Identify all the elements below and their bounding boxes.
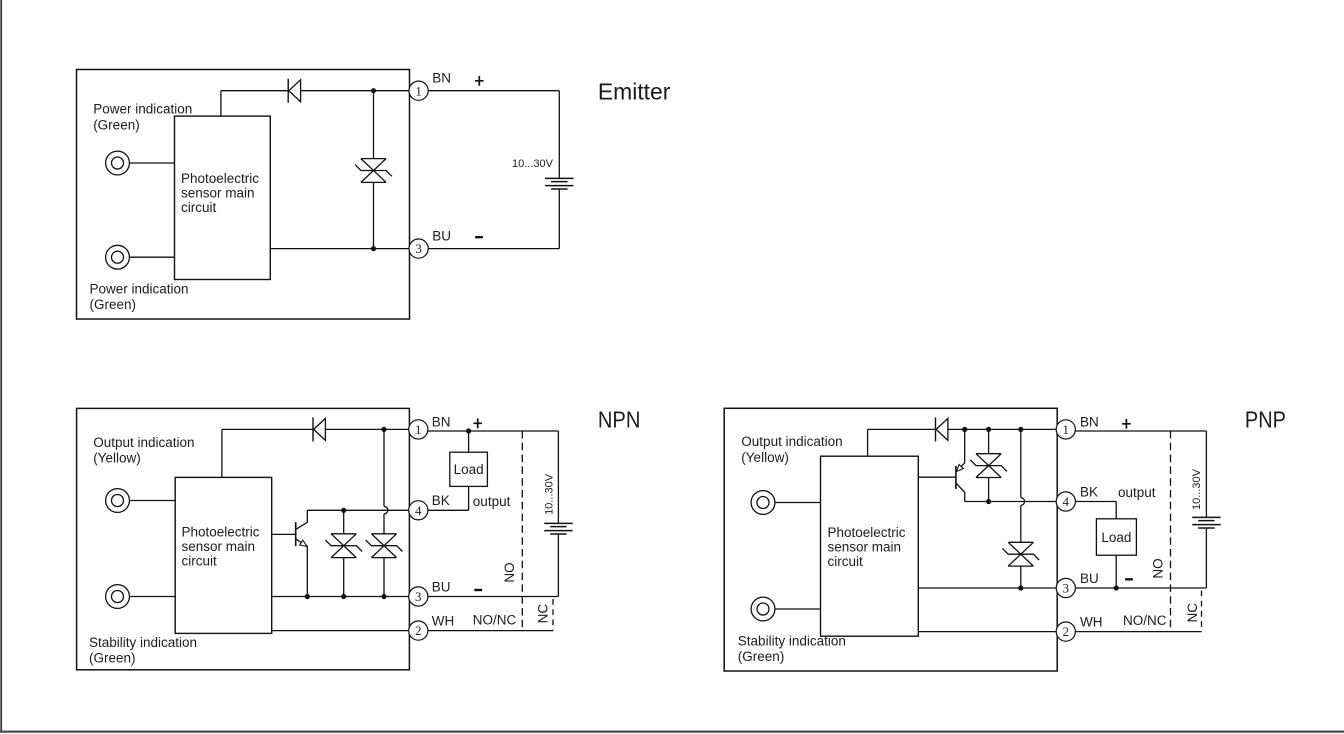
wire WH external from terminal 2 (1075, 631, 1201, 633)
wire BN rail right segment (301, 90, 410, 92)
svg-text:Photoelectric: Photoelectric (182, 525, 260, 540)
TVS surge suppressor Z2 supply clamp (1002, 542, 1039, 566)
node junction BU-TVS1 (341, 594, 346, 599)
TVS surge suppressor Z1 (355, 159, 392, 183)
wire sensor circuit top to BN rail (867, 429, 869, 456)
svg-text:NO/NC: NO/NC (1123, 613, 1167, 628)
battery 10...30V supply (544, 522, 572, 524)
transistor Q1 base wire (272, 533, 296, 535)
wire BN rail left segment (222, 428, 313, 430)
svg-text:BN: BN (1080, 414, 1099, 429)
wire BK external from terminal 4 to load (428, 509, 469, 511)
svg-text:circuit: circuit (181, 200, 217, 215)
svg-text:sensor main: sensor main (828, 540, 902, 555)
terminal 3 BU (1056, 578, 1075, 597)
node junction BK-TVS1 (986, 499, 991, 504)
svg-text:1: 1 (415, 83, 422, 98)
svg-text:10...30V: 10...30V (1191, 468, 1203, 510)
wire LED stability to sensor circuit (775, 608, 821, 610)
photoelectric sensor main circuit block (821, 456, 919, 636)
wire BK corner down to load (1115, 502, 1117, 519)
dashed NC select line (552, 599, 554, 631)
svg-text:10...30V: 10...30V (512, 158, 554, 170)
node junction BN-emitter (962, 427, 967, 432)
wire crossover hop over BK wire (1021, 498, 1025, 506)
svg-text:sensor main: sensor main (182, 539, 256, 554)
wire TVS1 down to BK rail (988, 478, 990, 502)
LED indicator stability (green) (106, 585, 130, 609)
svg-text:circuit: circuit (828, 554, 864, 569)
node junction BN-load (466, 428, 471, 433)
node junction BU-TVS2 (1018, 585, 1023, 590)
svg-text:sensor main: sensor main (181, 186, 255, 201)
svg-text:10...30V: 10...30V (544, 473, 556, 515)
svg-text:(Green): (Green) (738, 649, 785, 664)
svg-text:output: output (1118, 485, 1156, 500)
wire load down to BU rail (1115, 555, 1117, 588)
wire BU rail from sensor circuit to terminal 3 (272, 596, 409, 598)
svg-text:NC: NC (536, 604, 551, 624)
LED indicator top (power) (106, 151, 130, 175)
svg-text:WH: WH (1080, 614, 1103, 629)
svg-text:Load: Load (454, 462, 484, 477)
transistor Q1 emitter (296, 539, 307, 596)
svg-text:(Green): (Green) (89, 651, 136, 666)
wire supply right down to battery (557, 431, 559, 524)
terminal 1 BN (409, 420, 428, 439)
wire crossover down to TVS2 (1020, 505, 1022, 542)
wire BN rail right segment (948, 428, 1057, 430)
wire TVS1 down to BU rail (343, 558, 345, 597)
wire crossover hop over BK wire (384, 506, 388, 514)
transistor Q1 emitter (956, 429, 965, 472)
svg-text:Photoelectric: Photoelectric (828, 525, 906, 540)
dashed NO select line (521, 431, 523, 631)
node junction BK-TVS1 (341, 508, 346, 513)
svg-text:NC: NC (1185, 603, 1200, 623)
svg-text:Photoelectric: Photoelectric (181, 171, 259, 186)
node junction BU-TVS (371, 246, 376, 251)
svg-text:NO: NO (1150, 558, 1165, 578)
wire battery down to BU return (1205, 528, 1207, 588)
svg-text:(Green): (Green) (93, 118, 140, 133)
terminal 2 WH (1056, 622, 1075, 641)
NPN outer enclosure box (77, 408, 410, 669)
wire LED top to sensor circuit (129, 162, 174, 164)
svg-text:2: 2 (1063, 624, 1070, 639)
wire BN rail left segment (868, 428, 936, 430)
wire battery down to BU return (557, 534, 559, 597)
wire BN external to supply (1075, 430, 1206, 432)
svg-text:BK: BK (1080, 484, 1098, 499)
wire BN junction down to crossover (383, 429, 385, 506)
terminal 4 BK (1056, 492, 1075, 511)
page bottom border line (0, 730, 1344, 732)
node junction BN-TVS2 (381, 427, 386, 432)
wire TVS2 down to BU rail (1020, 566, 1022, 588)
svg-text:BU: BU (432, 579, 451, 594)
node junction BN-TVS (371, 88, 376, 93)
svg-text:PNP: PNP (1245, 407, 1286, 433)
node junction BN-TVS1 (986, 427, 991, 432)
svg-text:BK: BK (432, 493, 450, 508)
svg-text:3: 3 (1063, 581, 1070, 596)
transistor Q1 emitter arrow (300, 540, 308, 546)
svg-text:BN: BN (432, 70, 451, 85)
wire LED stability to sensor circuit (129, 596, 175, 598)
battery 10...30V supply (545, 177, 573, 179)
wire BU return to terminal 3 (428, 596, 559, 598)
emitter outer enclosure box (77, 70, 410, 320)
svg-text:4: 4 (415, 503, 422, 518)
wire load down to BK output (468, 486, 470, 510)
svg-text:3: 3 (415, 589, 422, 604)
transistor Q1 NPN base bar (295, 522, 297, 546)
wire BU return to terminal 3 (1075, 587, 1206, 589)
svg-text:circuit: circuit (182, 554, 218, 569)
svg-text:4: 4 (1063, 494, 1070, 509)
LED indicator stability (green) (751, 597, 775, 621)
wire LED output to sensor circuit (775, 502, 821, 504)
node junction BU-TVS2 (381, 594, 386, 599)
load box (450, 452, 488, 486)
svg-text:(Yellow): (Yellow) (741, 450, 789, 465)
photoelectric sensor main circuit block (175, 116, 271, 279)
wire WH rail from sensor circuit to terminal 2 (272, 630, 409, 632)
node junction BU-load (1114, 585, 1119, 590)
node junction BN-TVS2 (1018, 427, 1023, 432)
wire BU rail from sensor circuit to terminal 3 (270, 248, 409, 250)
wire supply right down to battery (1205, 431, 1207, 518)
svg-text:2: 2 (415, 623, 422, 638)
wire BK rail from collector to terminal 4 (965, 501, 1057, 503)
transistor Q1 base wire (918, 476, 956, 478)
minus sign supply (474, 589, 482, 591)
plus sign supply (1122, 419, 1131, 429)
terminal 2 WH (409, 621, 428, 640)
wire LED bottom to sensor circuit (129, 256, 174, 258)
TVS surge suppressor Z2 supply clamp (366, 534, 403, 558)
terminal 3 BU (409, 587, 428, 606)
wire crossover down to TVS2 (383, 514, 385, 534)
transistor Q1 collector (296, 510, 307, 529)
wire BN external to supply (428, 430, 559, 432)
wire BN junction down to TVS1 (988, 429, 990, 453)
wire junction down to TVS (373, 91, 375, 159)
wire BK external from terminal 4 to load (1075, 501, 1116, 503)
wire BN junction down to crossover (1020, 429, 1022, 497)
wire WH rail from sensor circuit to terminal 2 (918, 631, 1056, 633)
svg-text:Stability indication: Stability indication (89, 635, 197, 650)
transistor Q1 collector (956, 483, 965, 501)
wire WH external from terminal 2 (428, 630, 553, 632)
terminal 4 BK (409, 501, 428, 520)
load box (1096, 519, 1136, 555)
wire supply right down to battery (558, 91, 560, 179)
svg-text:NO/NC: NO/NC (473, 613, 517, 628)
svg-text:(Yellow): (Yellow) (93, 451, 141, 466)
svg-text:1: 1 (1063, 422, 1070, 437)
wire BU rail from sensor circuit to terminal 3 (918, 587, 1056, 589)
wire TVS down to BU rail (373, 182, 375, 248)
TVS surge suppressor Z1 output clamp (970, 454, 1007, 478)
plus sign supply (473, 418, 482, 428)
svg-text:output: output (473, 494, 511, 509)
svg-text:(Green): (Green) (90, 297, 137, 312)
transistor Q1 PNP base bar (955, 466, 957, 489)
minus sign supply (1125, 578, 1133, 580)
wire BK rail from collector to terminal 4 (307, 509, 409, 511)
wire battery down to BU return (558, 189, 560, 249)
transistor Q1 emitter arrow (956, 465, 963, 472)
svg-text:NPN: NPN (598, 407, 641, 433)
dashed NO select line (1170, 431, 1172, 632)
wire junction down to load (468, 431, 470, 452)
svg-text:3: 3 (415, 241, 422, 256)
wire BU return to terminal 3 (428, 248, 559, 250)
TVS surge suppressor Z1 output clamp (325, 534, 362, 558)
wire sensor circuit top to BN rail (221, 429, 223, 477)
wire TVS2 down to BU rail (383, 558, 385, 597)
terminal 1 BN (1056, 420, 1075, 439)
battery 10...30V supply (1192, 516, 1220, 518)
svg-text:1: 1 (415, 422, 422, 437)
svg-text:WH: WH (432, 613, 455, 628)
svg-text:Power indication: Power indication (90, 281, 189, 296)
diode D1 reverse polarity protection (287, 79, 289, 103)
svg-text:BU: BU (432, 229, 451, 244)
wire BK junction down to TVS1 (343, 510, 345, 534)
minus sign supply (475, 236, 483, 238)
svg-text:Output indication: Output indication (93, 435, 194, 450)
svg-text:Power indication: Power indication (93, 102, 192, 117)
diode D1 reverse polarity protection (935, 417, 937, 441)
dashed NC select line (1201, 591, 1203, 632)
LED indicator output (yellow) (751, 491, 775, 515)
wire sensor circuit top to BN rail (220, 91, 222, 116)
wire BN rail right segment (325, 428, 409, 430)
PNP outer enclosure box (724, 408, 1057, 671)
svg-text:BU: BU (1080, 571, 1099, 586)
svg-text:BN: BN (432, 414, 451, 429)
wire BN rail left segment (221, 90, 288, 92)
LED indicator output (yellow) (106, 489, 130, 513)
wire terminal 1 to supply top (428, 90, 559, 92)
svg-text:Emitter: Emitter (598, 79, 671, 105)
page left border line (0, 0, 2, 732)
terminal 3 BU (409, 239, 428, 258)
wire LED output to sensor circuit (129, 500, 175, 502)
terminal 1 BN (409, 81, 428, 100)
node junction BU-emitter (305, 594, 310, 599)
LED indicator bottom (power) (106, 245, 130, 269)
photoelectric sensor main circuit block (175, 477, 272, 633)
svg-text:NO: NO (502, 562, 517, 582)
svg-text:Output indication: Output indication (741, 434, 842, 449)
diode D1 reverse polarity protection (312, 417, 314, 441)
svg-text:Load: Load (1101, 530, 1131, 545)
plus sign supply (475, 76, 484, 86)
